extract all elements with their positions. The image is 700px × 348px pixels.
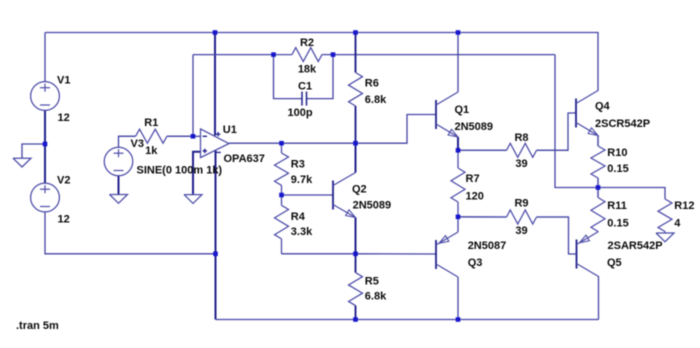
transistor Q1 (NPN) — [435, 100, 437, 129]
junction node op-amp output / R3 — [279, 141, 284, 146]
wire V1 bottom — [44, 110, 46, 144]
svg-text:1k: 1k — [145, 145, 158, 157]
junction node R7 / R9 / Q3 emitter — [456, 215, 461, 220]
svg-text:R5: R5 — [365, 276, 379, 288]
wire R9 to Q5 base — [537, 217, 577, 254]
junction node output / R6 / Q2 collector — [353, 141, 358, 146]
resistor R11 (0.15) — [597, 188, 599, 198]
wire Q3 collector — [457, 277, 459, 320]
junction node bottom rail / R5 — [353, 317, 358, 322]
svg-text:.tran 5m: .tran 5m — [16, 320, 59, 332]
svg-text:0.15: 0.15 — [607, 163, 628, 175]
transistor Q2 (NPN) — [332, 181, 334, 210]
ground G3 (op-amp +input) — [184, 195, 202, 204]
svg-text:R11: R11 — [607, 200, 627, 212]
svg-text:6.8k: 6.8k — [365, 94, 387, 106]
junction node +12V / op-amp V+ — [213, 30, 218, 35]
resistor R10 (0.15) — [597, 136, 599, 146]
transistor Q3 (PNP) — [435, 240, 437, 269]
resistor R4 (3.3k) — [281, 195, 283, 205]
wire Q1 collector — [457, 33, 459, 93]
svg-text:R12: R12 — [674, 200, 694, 212]
wire output node to R12 — [598, 188, 665, 200]
resistor R9 (39) — [458, 216, 507, 218]
resistor R1 (1k) — [118, 135, 135, 137]
svg-text:0.15: 0.15 — [607, 218, 628, 230]
ground G2 (V3) — [110, 195, 128, 204]
wire Q5 collector — [598, 276, 600, 320]
svg-text:R10: R10 — [607, 147, 627, 159]
svg-text:V2: V2 — [57, 175, 70, 187]
svg-text:Q4: Q4 — [595, 101, 611, 113]
wire C1 right branch — [307, 55, 334, 99]
resistor R3 (9.7k) — [281, 143, 283, 153]
svg-text:V3: V3 — [131, 138, 144, 150]
junction node Q2 emitter / R4 / R5 / Q3 base — [353, 252, 358, 257]
svg-text:Q1: Q1 — [455, 104, 470, 116]
junction node feedback / C1 right — [331, 52, 336, 57]
svg-text:12: 12 — [58, 112, 70, 124]
svg-text:6.8k: 6.8k — [365, 291, 387, 303]
wire +12V top rail — [45, 33, 598, 92]
svg-text:2SCR542P: 2SCR542P — [595, 118, 650, 130]
resistor R5 (6.8k) — [355, 254, 357, 273]
wire Q2 emitter — [355, 218, 357, 254]
wire Q1 emitter — [457, 137, 459, 150]
svg-text:39: 39 — [515, 158, 527, 170]
svg-text:4: 4 — [674, 218, 681, 230]
resistor R6 (6.8k) — [355, 33, 357, 73]
wire R11 top lead — [597, 188, 599, 198]
ground G1 (supply midpoint) — [13, 158, 31, 167]
svg-text:R8: R8 — [514, 132, 528, 144]
svg-text:SINE(0 100m 1k): SINE(0 100m 1k) — [137, 165, 223, 177]
resistor R8 (39) — [458, 149, 507, 151]
svg-text:3.3k: 3.3k — [291, 226, 313, 238]
wire Q3 emitter — [457, 217, 459, 232]
wire V2 top — [44, 144, 46, 183]
wire op-amp V+ stub — [214, 33, 216, 136]
svg-text:R7: R7 — [466, 173, 480, 185]
svg-text:OPA637: OPA637 — [224, 153, 265, 165]
junction node feedback / C1 left — [271, 52, 276, 57]
wire V1 top — [44, 33, 46, 82]
svg-text:120: 120 — [466, 191, 484, 203]
junction node Q1 emitter / R7 / R8 — [456, 148, 461, 153]
svg-text:R3: R3 — [291, 159, 305, 171]
junction node inverting input — [191, 134, 196, 139]
wire ground branch left — [22, 144, 45, 158]
svg-text:R4: R4 — [291, 211, 306, 223]
wire Q2 base — [282, 194, 334, 196]
svg-text:R2: R2 — [300, 37, 314, 49]
voltage source V2 — [31, 183, 60, 212]
wire V3 to R1 — [119, 136, 136, 147]
wire feedback rail left — [193, 54, 274, 56]
ground G4 (R12) — [656, 233, 674, 242]
junction node R3 / R4 / Q2 base — [279, 193, 284, 198]
wire V3 bottom to ground — [118, 176, 120, 195]
voltage source V3 — [104, 147, 133, 176]
svg-text:R9: R9 — [514, 198, 528, 210]
junction node output stage / R10 / R11 — [596, 185, 601, 190]
junction node +12V / Q1 collector — [456, 30, 461, 35]
svg-text:V1: V1 — [57, 75, 70, 87]
wire Q2 collector — [355, 143, 357, 172]
wire op-amp output node — [229, 142, 356, 144]
svg-text:100p: 100p — [288, 107, 313, 119]
svg-text:U1: U1 — [223, 124, 237, 136]
svg-text:2SAR542P: 2SAR542P — [608, 240, 663, 252]
wire to Q1 base — [356, 115, 437, 144]
wire R8 to Q4 base — [537, 113, 577, 150]
op-amp U1 (OPA637) — [201, 129, 229, 158]
junction node -12V / op-amp V- — [213, 252, 218, 257]
junction node bottom rail / Q3 collector — [456, 317, 461, 322]
wire non-inverting input to ground — [193, 152, 201, 195]
transistor Q4 (NPN) — [575, 99, 577, 128]
svg-text:18k: 18k — [298, 64, 317, 76]
voltage source V1 — [31, 82, 60, 111]
svg-text:2N5089: 2N5089 — [353, 199, 392, 211]
wire emitter node to Q3 base — [356, 253, 437, 255]
svg-text:R6: R6 — [365, 77, 379, 89]
resistor R12 (4) — [664, 198, 666, 200]
wire V2 bottom to -12V rail — [45, 212, 216, 254]
wire bottom rail — [216, 319, 599, 321]
wire Q4 emitter to R10 — [597, 136, 599, 147]
svg-text:Q2: Q2 — [352, 183, 367, 195]
wire Q1 emitter to R8 — [458, 149, 507, 151]
svg-text:9.7k: 9.7k — [291, 174, 313, 186]
svg-text:12: 12 — [58, 214, 70, 226]
svg-text:Q3: Q3 — [468, 257, 483, 269]
resistor R7 (120) — [457, 150, 459, 168]
junction node +12V / R6 — [353, 30, 358, 35]
junction node V1-V2 midpoint — [43, 142, 48, 147]
wire op-amp V- column — [215, 151, 217, 320]
wire R10 to output node — [597, 178, 599, 188]
wire R9 left lead — [458, 216, 507, 218]
svg-text:Q5: Q5 — [607, 257, 622, 269]
resistor R2 (18k) — [274, 54, 293, 56]
wire R4 bottom to emitter node — [282, 253, 356, 255]
wire feedback drop to output node — [555, 55, 598, 188]
svg-text:R1: R1 — [144, 117, 158, 129]
wire R1 to node IN- — [167, 135, 193, 137]
transistor Q5 (PNP) — [576, 240, 578, 269]
svg-text:2N5087: 2N5087 — [468, 240, 507, 252]
wire inverting input — [193, 135, 201, 137]
svg-text:39: 39 — [515, 225, 527, 237]
wire feedback riser to inverting input — [192, 55, 194, 137]
wire R12 to ground — [664, 232, 666, 234]
svg-text:C1: C1 — [298, 80, 312, 92]
wire feedback rail right — [333, 54, 555, 56]
svg-text:2N5089: 2N5089 — [455, 121, 494, 133]
capacitor C1 — [301, 92, 303, 106]
wire C1 left branch — [274, 55, 303, 99]
